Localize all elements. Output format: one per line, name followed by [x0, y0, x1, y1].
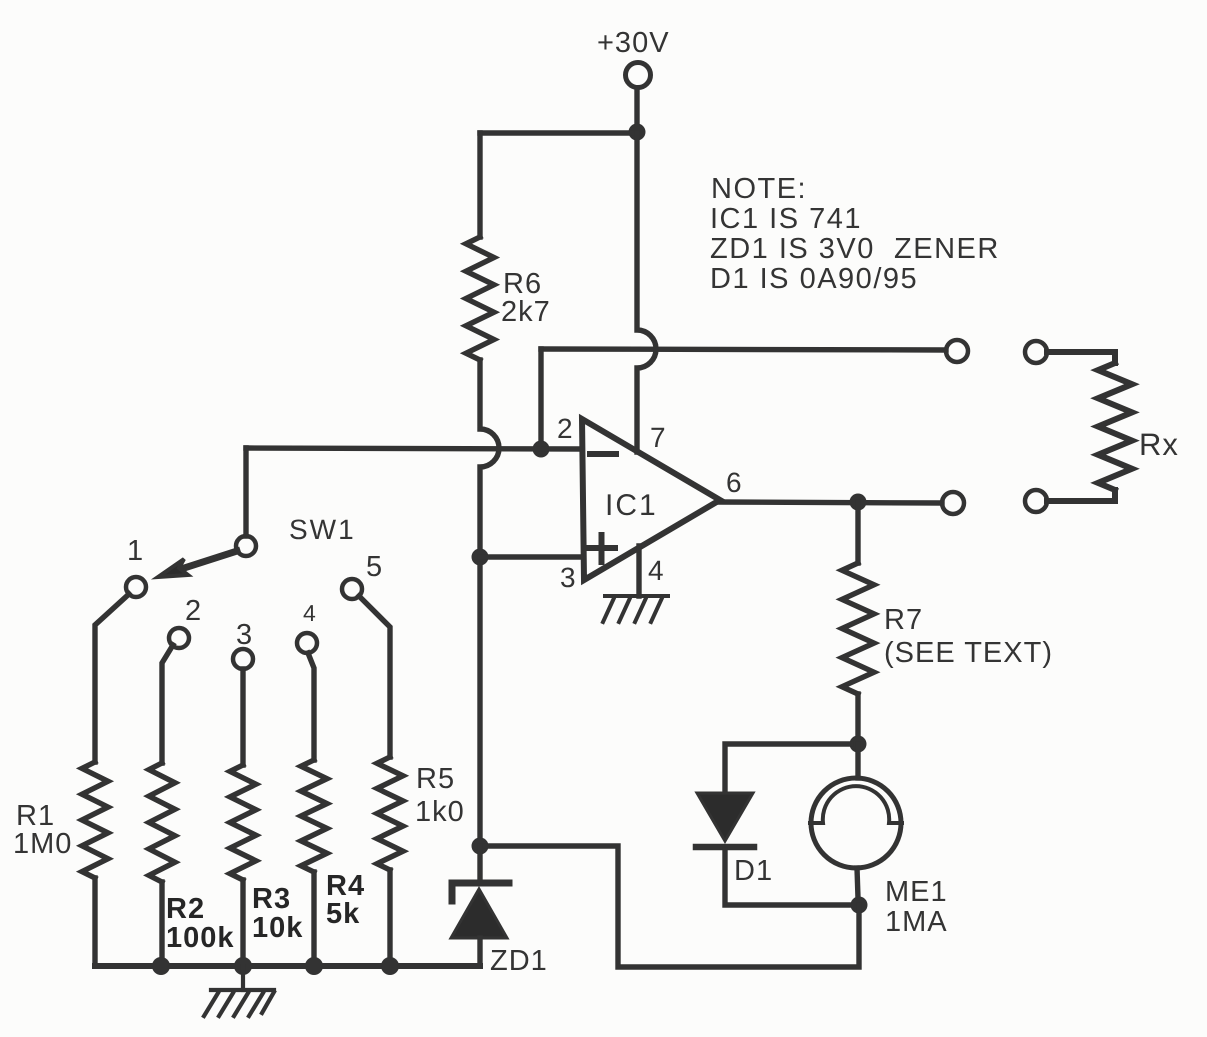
svg-text:6: 6 — [726, 467, 742, 498]
wire zener bottom lead — [477, 938, 482, 966]
wire output down to R7 — [855, 502, 860, 563]
wire contact4 to R4 — [308, 653, 314, 760]
node supply junction — [629, 124, 646, 141]
svg-text:1: 1 — [127, 535, 144, 567]
resistor R1 — [82, 762, 108, 878]
wire meter top lead — [855, 744, 860, 778]
svg-text:R3: R3 — [252, 883, 291, 915]
node R4 bottom — [305, 957, 323, 975]
terminal Rx bottom — [1025, 490, 1047, 512]
svg-text:4: 4 — [648, 555, 664, 586]
svg-text:1MA: 1MA — [885, 906, 948, 938]
contact 1 — [126, 577, 146, 597]
svg-text:(SEE TEXT): (SEE TEXT) — [884, 637, 1053, 669]
terminal Rx top — [1025, 341, 1047, 363]
svg-text:R2: R2 — [166, 893, 205, 925]
wire R6 bottom with hop over pin2 wire — [480, 360, 499, 550]
node inverting input — [533, 441, 550, 458]
op-amp IC1 — [582, 419, 720, 580]
wire R4 bottom — [311, 872, 316, 966]
wire meter node to D1 — [725, 744, 851, 792]
wire output feedback top — [541, 349, 946, 350]
switch SW1 wiper arm — [178, 551, 237, 570]
terminal output bottom — [942, 492, 964, 514]
terminal output top — [946, 340, 968, 362]
node R2 bottom — [152, 957, 170, 975]
meter inner arc — [810, 786, 902, 823]
svg-text:IC1: IC1 — [605, 489, 658, 522]
node meter top — [850, 736, 867, 753]
wire contact5 to R5 — [359, 596, 390, 757]
switch SW1 arrowhead — [158, 559, 188, 577]
svg-text:4: 4 — [303, 600, 316, 626]
wire R1 bottom — [92, 878, 97, 966]
svg-text:7: 7 — [650, 422, 666, 453]
svg-text:D1 IS 0A90/95: D1 IS 0A90/95 — [710, 263, 918, 295]
wire Rx bottom — [1047, 490, 1115, 501]
diode D1 — [697, 793, 753, 841]
wire contact3 to R3 — [240, 669, 245, 765]
svg-text:R5: R5 — [416, 763, 455, 795]
svg-text:D1: D1 — [734, 855, 773, 887]
contact 3 — [233, 649, 253, 669]
wire R2 bottom — [159, 882, 164, 966]
ground bottom — [204, 966, 274, 1016]
wire SW1 pole to pin 2 — [246, 448, 581, 449]
svg-text:Rx: Rx — [1139, 427, 1179, 462]
wire pin 4 to ground — [636, 546, 641, 596]
svg-text:3: 3 — [560, 562, 576, 593]
svg-text:IC1 IS 741: IC1 IS 741 — [710, 203, 862, 235]
resistor R3 — [230, 765, 256, 880]
node meter bottom — [851, 897, 868, 914]
wire feedback down to inverting node — [538, 349, 543, 442]
wire R5 bottom — [387, 870, 392, 966]
wire contact2 to R2 — [162, 645, 173, 763]
node R5 bottom — [381, 957, 399, 975]
svg-text:1M0: 1M0 — [13, 828, 72, 860]
svg-text:SW1: SW1 — [289, 514, 356, 545]
op-amp minus sign — [590, 451, 616, 457]
wire bottom bus — [95, 963, 480, 969]
wire pin 6 output — [718, 502, 942, 503]
diode D1 cathode bar — [696, 844, 754, 851]
wire meter return — [480, 846, 859, 967]
wire meter bottom lead — [857, 868, 858, 898]
wire down to zener node — [477, 564, 482, 840]
svg-text:5: 5 — [366, 551, 383, 583]
wire SW1 pole riser — [243, 448, 248, 536]
wire contact1 to R1 — [95, 594, 129, 762]
svg-text:1k0: 1k0 — [415, 796, 465, 828]
svg-text:2k7: 2k7 — [501, 296, 551, 328]
svg-text:+30V: +30V — [597, 27, 670, 59]
resistor R4 — [301, 760, 327, 872]
contact 4 — [297, 633, 317, 653]
switch SW1 pole — [236, 536, 256, 556]
contact 2 — [169, 628, 189, 648]
note text block — [710, 173, 1000, 295]
+30V terminal — [626, 63, 651, 88]
resistor R7 — [842, 563, 874, 694]
wire zener top lead — [477, 846, 482, 880]
svg-text:2: 2 — [185, 595, 202, 627]
svg-text:R7: R7 — [884, 604, 923, 636]
svg-text:100k: 100k — [166, 922, 235, 954]
svg-text:10k: 10k — [252, 912, 303, 944]
meter ME1 — [811, 778, 901, 868]
wire supply to R6 top — [480, 130, 637, 135]
wire pin 3 — [480, 554, 581, 559]
resistor Rx — [1098, 363, 1132, 490]
svg-text:ME1: ME1 — [885, 876, 948, 908]
resistor R2 — [149, 763, 175, 882]
wire R7 to meter node — [855, 694, 860, 737]
svg-text:NOTE:: NOTE: — [711, 173, 807, 205]
svg-text:ZD1: ZD1 — [490, 945, 548, 977]
wire supply down with hop over feedback wire — [637, 133, 656, 452]
resistor R5 — [377, 757, 403, 870]
op-amp plus sign — [588, 535, 615, 562]
svg-text:3: 3 — [236, 619, 253, 651]
node zener top — [472, 838, 489, 855]
contact 5 — [342, 579, 362, 599]
zener ZD1 cathode bar — [452, 883, 509, 901]
zener ZD1 — [451, 889, 507, 938]
wire R3 bottom — [240, 880, 245, 966]
node output — [850, 494, 867, 511]
wire R6 top lead — [477, 133, 482, 237]
wire +30V down to junction — [634, 88, 639, 131]
svg-text:ZD1 IS 3V0 ZENER: ZD1 IS 3V0 ZENER — [710, 233, 1000, 265]
ground op-amp — [603, 596, 668, 622]
resistor R6 — [466, 237, 494, 360]
node R3 bottom — [234, 957, 252, 975]
svg-text:5k: 5k — [326, 898, 360, 930]
wire D1 bottom — [725, 850, 852, 905]
svg-text:2: 2 — [557, 413, 573, 444]
wire Rx top — [1047, 352, 1115, 363]
node pin3 tie — [472, 549, 489, 566]
